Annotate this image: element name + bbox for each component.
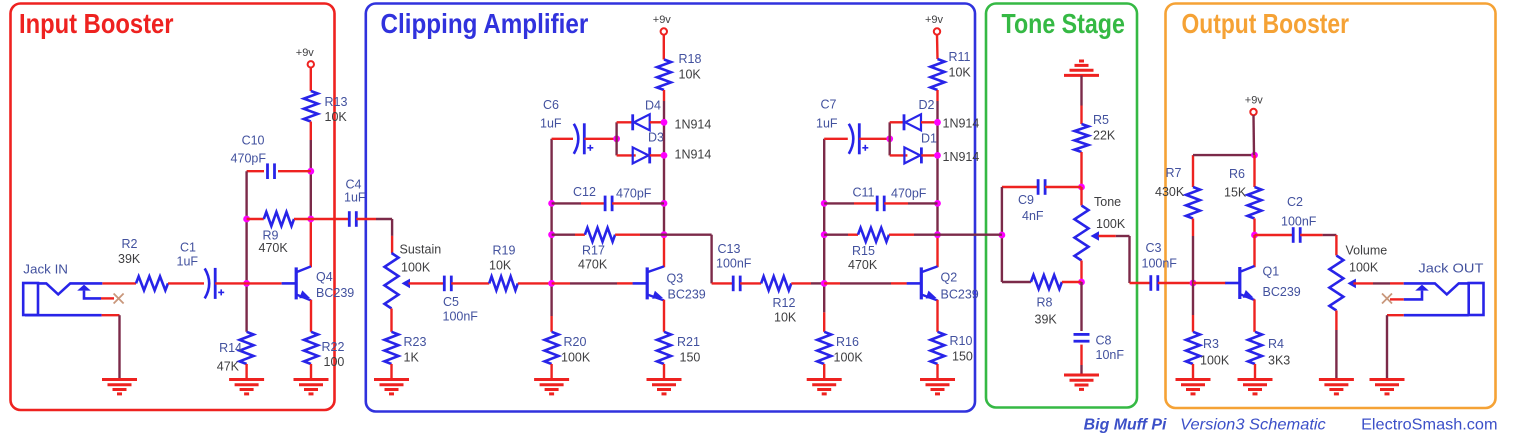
svg-text:Q1: Q1 [1263, 265, 1280, 279]
svg-text:BC239: BC239 [941, 288, 979, 302]
svg-text:10K: 10K [489, 259, 512, 273]
svg-text:C2: C2 [1287, 195, 1303, 209]
svg-text:R12: R12 [773, 296, 796, 310]
svg-text:R4: R4 [1268, 337, 1284, 351]
svg-text:100K: 100K [401, 261, 431, 275]
svg-text:10nF: 10nF [1096, 348, 1125, 362]
svg-text:R22: R22 [322, 340, 345, 354]
svg-text:22K: 22K [1093, 129, 1116, 143]
svg-text:10K: 10K [679, 68, 702, 82]
svg-text:R23: R23 [404, 335, 427, 349]
svg-text:470K: 470K [259, 241, 289, 255]
svg-text:10K: 10K [774, 311, 797, 325]
svg-text:C1: C1 [180, 241, 196, 255]
svg-text:C13: C13 [718, 242, 741, 256]
svg-text:ElectroSmash.com: ElectroSmash.com [1361, 416, 1497, 433]
svg-text:R21: R21 [677, 335, 700, 349]
svg-text:BC239: BC239 [316, 286, 354, 300]
svg-text:R5: R5 [1093, 113, 1109, 127]
svg-text:D4: D4 [645, 99, 661, 113]
svg-text:R10: R10 [950, 334, 973, 348]
svg-text:1N914: 1N914 [675, 118, 712, 132]
svg-text:R2: R2 [122, 237, 138, 251]
svg-text:1uF: 1uF [816, 117, 838, 131]
svg-text:100nF: 100nF [1281, 215, 1317, 229]
svg-text:C5: C5 [443, 295, 459, 309]
svg-text:100K: 100K [1349, 261, 1379, 275]
svg-text:R3: R3 [1203, 337, 1219, 351]
svg-text:150: 150 [952, 350, 973, 364]
svg-text:Tone Stage: Tone Stage [1002, 8, 1125, 39]
svg-text:Clipping Amplifier: Clipping Amplifier [381, 8, 589, 39]
svg-text:D1: D1 [921, 132, 937, 146]
svg-text:100K: 100K [1200, 354, 1230, 368]
svg-text:+9v: +9v [925, 14, 944, 26]
svg-text:100nF: 100nF [716, 257, 752, 271]
svg-text:Q4: Q4 [316, 270, 333, 284]
svg-text:C11: C11 [853, 186, 875, 200]
svg-text:10K: 10K [949, 66, 972, 80]
svg-text:100: 100 [324, 355, 345, 369]
svg-text:D3: D3 [648, 131, 664, 145]
svg-text:1uF: 1uF [177, 255, 199, 269]
svg-text:R14: R14 [219, 341, 242, 355]
svg-text:R19: R19 [493, 244, 516, 258]
svg-text:47K: 47K [217, 360, 240, 374]
svg-text:470pF: 470pF [616, 187, 652, 201]
svg-text:Input Booster: Input Booster [19, 8, 174, 39]
svg-text:D2: D2 [919, 98, 935, 112]
svg-text:1N914: 1N914 [943, 117, 980, 131]
svg-text:R20: R20 [564, 335, 587, 349]
svg-text:39K: 39K [1035, 313, 1058, 327]
svg-text:Tone: Tone [1094, 195, 1121, 209]
svg-text:C8: C8 [1096, 334, 1112, 348]
svg-text:Version3 Schematic: Version3 Schematic [1180, 416, 1326, 433]
svg-text:R18: R18 [679, 52, 702, 66]
svg-text:100nF: 100nF [443, 310, 479, 324]
svg-text:+9v: +9v [296, 47, 315, 59]
svg-text:Q2: Q2 [941, 271, 958, 285]
svg-text:470pF: 470pF [891, 187, 927, 201]
svg-text:R16: R16 [836, 335, 859, 349]
svg-text:1N914: 1N914 [675, 148, 712, 162]
svg-text:470pF: 470pF [231, 152, 267, 166]
svg-text:Jack IN: Jack IN [23, 263, 68, 277]
svg-text:1uF: 1uF [344, 191, 366, 205]
svg-text:BC239: BC239 [668, 288, 706, 302]
svg-text:+9v: +9v [1245, 95, 1264, 107]
svg-text:39K: 39K [118, 252, 141, 266]
svg-text:C7: C7 [821, 98, 837, 112]
svg-text:C6: C6 [543, 98, 559, 112]
svg-text:Q3: Q3 [667, 272, 684, 286]
svg-text:BC239: BC239 [1263, 285, 1301, 299]
svg-text:470K: 470K [848, 258, 878, 272]
svg-text:15K: 15K [1224, 186, 1247, 200]
svg-text:1K: 1K [404, 351, 420, 365]
svg-text:R13: R13 [325, 95, 348, 109]
svg-text:R8: R8 [1037, 296, 1053, 310]
svg-text:430K: 430K [1155, 185, 1185, 199]
svg-text:R6: R6 [1229, 167, 1245, 181]
svg-text:10K: 10K [325, 110, 348, 124]
svg-text:C12: C12 [573, 185, 596, 199]
svg-text:Big Muff Pi: Big Muff Pi [1084, 416, 1167, 433]
svg-text:Volume: Volume [1346, 244, 1388, 258]
svg-text:470K: 470K [578, 258, 608, 272]
svg-text:100K: 100K [834, 351, 864, 365]
svg-text:1N914: 1N914 [943, 150, 980, 164]
svg-text:Jack OUT: Jack OUT [1418, 262, 1483, 276]
svg-text:4nF: 4nF [1022, 209, 1044, 223]
svg-text:C10: C10 [242, 134, 265, 148]
svg-text:R11: R11 [949, 50, 971, 64]
svg-text:R7: R7 [1166, 166, 1182, 180]
svg-text:R17: R17 [582, 244, 605, 258]
svg-text:C3: C3 [1146, 241, 1162, 255]
svg-text:C9: C9 [1018, 193, 1034, 207]
svg-text:100K: 100K [1096, 217, 1126, 231]
svg-text:3K3: 3K3 [1268, 354, 1290, 368]
svg-text:1uF: 1uF [540, 117, 562, 131]
svg-text:+9v: +9v [653, 14, 672, 26]
svg-text:100nF: 100nF [1142, 257, 1178, 271]
svg-text:Sustain: Sustain [400, 243, 442, 257]
svg-text:100K: 100K [561, 351, 591, 365]
svg-text:C4: C4 [346, 178, 362, 192]
svg-text:R15: R15 [852, 244, 875, 258]
svg-text:Output Booster: Output Booster [1182, 8, 1350, 39]
svg-text:150: 150 [680, 351, 701, 365]
